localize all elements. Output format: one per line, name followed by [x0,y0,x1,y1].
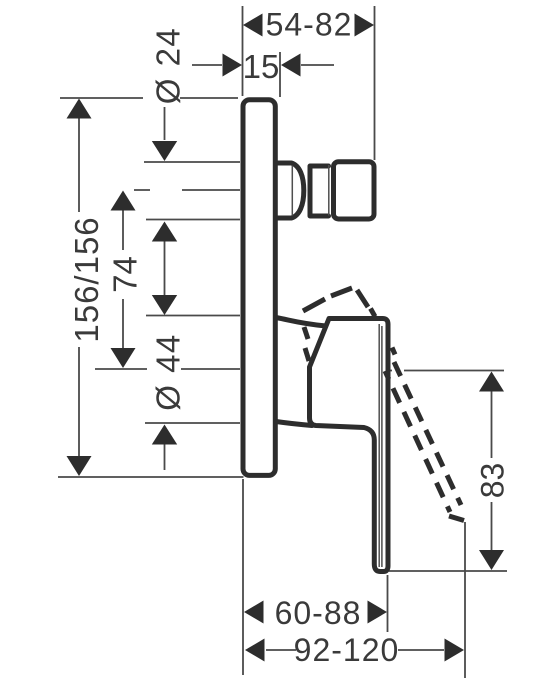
svg-text:156/156: 156/156 [68,216,105,342]
svg-text:60-88: 60-88 [275,595,362,631]
svg-text:83: 83 [475,463,511,499]
svg-text:Ø 24: Ø 24 [150,27,187,105]
svg-text:54-82: 54-82 [266,7,353,43]
svg-text:74: 74 [107,256,144,293]
svg-text:15: 15 [243,48,280,85]
svg-text:Ø 44: Ø 44 [150,333,187,411]
svg-text:92-120: 92-120 [294,632,400,668]
